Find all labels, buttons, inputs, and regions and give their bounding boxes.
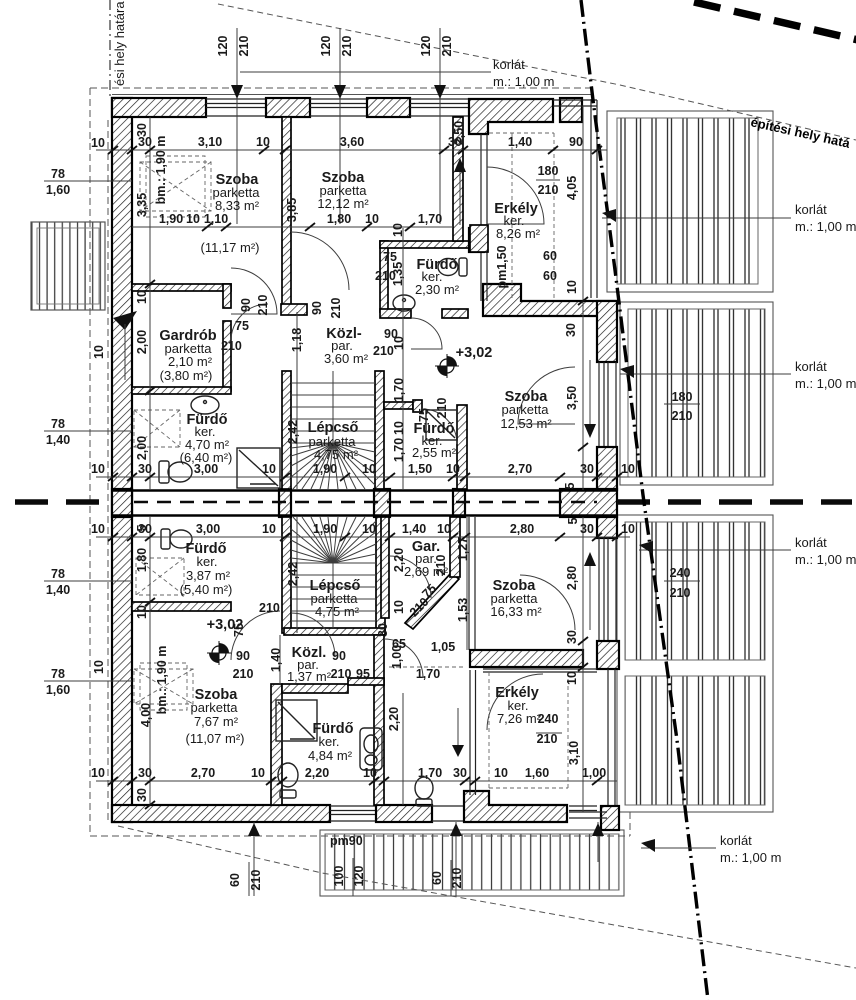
thin dashed diagonal top (epitesi hely hatara): [218, 4, 856, 140]
wall between Erkely and szoba 12,53: [483, 284, 617, 316]
svg-text:1,80: 1,80: [327, 212, 351, 226]
svg-text:12,12 m²: 12,12 m²: [317, 196, 369, 211]
svg-text:3,60: 3,60: [340, 135, 364, 149]
door szoba 12,12 from kozl: [291, 232, 349, 290]
svg-text:10: 10: [391, 223, 405, 237]
furdo 2,30: [415, 257, 460, 297]
svg-text:78: 78: [51, 567, 65, 581]
svg-text:7,26 m²: 7,26 m²: [497, 711, 542, 726]
right wall lower block top unit: [597, 447, 617, 490]
bottom-right corner block: [601, 806, 619, 830]
shower furdo 3,87 dashed: [136, 558, 184, 595]
svg-text:2,42: 2,42: [286, 420, 300, 444]
svg-text:10: 10: [135, 290, 149, 304]
dim row 4 y534: [96, 536, 630, 538]
svg-text:180: 180: [672, 390, 693, 404]
svg-text:10: 10: [251, 766, 265, 780]
svg-text:10: 10: [92, 345, 106, 359]
szoba 12,12: [317, 170, 369, 211]
szoba 12,12 right wall: [453, 117, 463, 241]
svg-text:210: 210: [256, 295, 270, 316]
dim row mid bottom unit y646: [356, 637, 455, 681]
svg-text:10: 10: [446, 462, 460, 476]
svg-text:30: 30: [135, 123, 149, 137]
svg-text:75: 75: [232, 623, 246, 637]
wall between szoba 8,33 and szoba 12,12: [282, 117, 291, 312]
svg-text:10: 10: [365, 212, 379, 226]
svg-text:m.: 1,00 m: m.: 1,00 m: [720, 850, 781, 865]
wall spine x375 top unit: [380, 241, 388, 312]
bottom door arrows: [248, 823, 260, 836]
svg-text:95: 95: [356, 667, 370, 681]
svg-text:12,53 m²: 12,53 m²: [500, 416, 552, 431]
svg-text:210: 210: [670, 586, 691, 600]
top wall piece 1: [112, 98, 206, 117]
wc bottom wall: [415, 777, 433, 806]
svg-text:210: 210: [434, 555, 448, 576]
diagonal dash-dot property line: [581, 0, 708, 1000]
wall left of furdo 4,84: [271, 684, 282, 805]
top window 2: [310, 99, 367, 116]
bottom window 1: [330, 806, 376, 821]
bottom railing of bottom Erkely: [569, 812, 607, 818]
svg-text:10: 10: [186, 212, 200, 226]
door gar: [389, 556, 431, 598]
erkely bottom top rail: [483, 669, 597, 672]
bottom window right: [569, 806, 597, 811]
svg-text:1,70: 1,70: [418, 766, 442, 780]
door szoba 12,53 entry: [518, 367, 575, 424]
svg-text:2,55 m²: 2,55 m²: [412, 445, 457, 460]
gardrob: [159, 328, 216, 383]
svg-text:1,40: 1,40: [402, 522, 426, 536]
shower furdo 2,55: [426, 410, 457, 440]
svg-text:3,10: 3,10: [198, 135, 222, 149]
svg-text:90: 90: [239, 298, 253, 312]
szoba 16,33 left wall: [469, 517, 475, 650]
svg-text:parketta: parketta: [191, 700, 239, 715]
svg-text:16,33 m²: 16,33 m²: [490, 604, 542, 619]
bottom erkely left wall: [470, 670, 476, 795]
svg-text:1,60: 1,60: [525, 766, 549, 780]
lepcso bottom: [310, 578, 361, 619]
svg-text:210: 210: [331, 667, 352, 681]
svg-text:10: 10: [91, 462, 105, 476]
svg-text:3,10: 3,10: [567, 741, 581, 765]
svg-text:5: 5: [563, 482, 577, 489]
svg-text:210: 210: [259, 601, 280, 615]
furdo 4,84: [308, 721, 354, 763]
left exterior wall: [112, 98, 132, 822]
svg-text:m.: 1,00 m: m.: 1,00 m: [795, 376, 856, 391]
door furdo 2,55: [422, 409, 457, 444]
svg-text:1,40: 1,40: [508, 135, 532, 149]
right window (szoba 12,53): [599, 362, 616, 447]
svg-text:75: 75: [235, 319, 249, 333]
svg-text:korlát: korlát: [795, 202, 827, 217]
svg-text:1,10: 1,10: [204, 212, 228, 226]
svg-text:2,30 m²: 2,30 m²: [415, 282, 460, 297]
svg-text:120: 120: [352, 866, 366, 887]
svg-text:3,60 m²: 3,60 m²: [324, 351, 369, 366]
svg-text:10: 10: [363, 766, 377, 780]
svg-text:5: 5: [566, 517, 580, 524]
svg-text:1,60: 1,60: [46, 183, 70, 197]
window axis arrows top: [231, 85, 243, 99]
svg-text:30: 30: [453, 766, 467, 780]
svg-text:+3,02: +3,02: [456, 345, 493, 361]
dim row 5 y777: [96, 780, 617, 782]
svg-text:30: 30: [580, 522, 594, 536]
stair bottom cap: [284, 628, 385, 635]
svg-text:90: 90: [332, 649, 346, 663]
svg-text:10: 10: [135, 605, 149, 619]
bottom door gap: [432, 806, 467, 821]
furdo 3,87 bottom wall: [132, 602, 231, 611]
wc furdo 3,87: [161, 529, 192, 549]
svg-text:2,80: 2,80: [565, 566, 579, 590]
top-right L wall of Erkely: [469, 99, 553, 134]
svg-text:210: 210: [233, 667, 254, 681]
svg-text:bm.: 1,90 m: bm.: 1,90 m: [154, 136, 168, 205]
svg-text:210: 210: [249, 870, 263, 891]
svg-text:korlát: korlát: [720, 833, 752, 848]
stair left wall top unit: [282, 371, 291, 489]
svg-text:1,90: 1,90: [159, 212, 183, 226]
erkely top: [494, 201, 540, 241]
svg-text:pm90: pm90: [330, 834, 363, 848]
svg-text:10: 10: [565, 280, 579, 294]
svg-text:(6,40 m²): (6,40 m²): [180, 450, 233, 465]
svg-text:(5,40 m²): (5,40 m²): [180, 582, 233, 597]
svg-text:10: 10: [621, 522, 635, 536]
svg-text:10: 10: [362, 522, 376, 536]
furdo 4,84 right wall: [374, 635, 384, 805]
svg-text:30: 30: [135, 788, 149, 802]
svg-text:1,70: 1,70: [416, 667, 440, 681]
wc furdo 4,70: [159, 461, 192, 483]
wc furdo 4,84: [278, 763, 298, 798]
top window 3: [410, 99, 469, 116]
szoba 7,67: [186, 687, 245, 746]
svg-text:240: 240: [538, 712, 559, 726]
balcony bottom-right: [617, 515, 773, 812]
svg-text:1,70: 1,70: [392, 378, 406, 402]
svg-text:120: 120: [419, 36, 433, 57]
top wall piece 3: [367, 98, 410, 117]
door szoba 16,33: [520, 575, 575, 630]
kozl bottom-right wall piece: [348, 678, 384, 685]
door furdo 4,84: [384, 639, 423, 678]
svg-text:60: 60: [543, 249, 557, 263]
svg-text:5: 5: [135, 524, 149, 531]
gar diagonal wall: [405, 573, 459, 629]
svg-text:30: 30: [580, 462, 594, 476]
wc furdo 2,30: [438, 258, 467, 276]
svg-text:30: 30: [138, 462, 152, 476]
svg-text:78: 78: [51, 667, 65, 681]
svg-text:1,90: 1,90: [313, 522, 337, 536]
door erkely top: [487, 167, 544, 224]
svg-text:3,85: 3,85: [285, 198, 299, 222]
door szoba 8,33: [231, 268, 277, 314]
bm dashed box szoba 8,33: [140, 156, 211, 217]
svg-text:(11,07 m²): (11,07 m²): [186, 731, 245, 746]
svg-text:78: 78: [51, 167, 65, 181]
svg-text:10: 10: [392, 600, 406, 614]
svg-text:m.: 1,00 m: m.: 1,00 m: [795, 219, 856, 234]
svg-text:2,20: 2,20: [305, 766, 329, 780]
bottom wall piece 2: [376, 805, 432, 822]
svg-text:210: 210: [340, 36, 354, 57]
svg-text:ési hely határa: ési hely határa: [112, 1, 127, 86]
svg-text:1,35: 1,35: [391, 262, 405, 286]
shower tray by party wall top: [237, 448, 280, 488]
svg-text:10: 10: [92, 660, 106, 674]
svg-text:10: 10: [91, 766, 105, 780]
svg-text:210: 210: [537, 732, 558, 746]
svg-text:180: 180: [538, 164, 559, 178]
right wall upper block (szoba 12,53): [597, 301, 617, 362]
erkely bottom: [495, 685, 541, 726]
svg-text:1,90: 1,90: [313, 462, 337, 476]
svg-text:1,60: 1,60: [46, 683, 70, 697]
door furdo 3,87 (bottom unit): [231, 611, 280, 660]
svg-text:90: 90: [236, 649, 250, 663]
door furdo 2,30: [411, 318, 442, 349]
level marker top unit: [435, 354, 459, 378]
top wall piece 2: [266, 98, 310, 117]
top window 1: [206, 99, 266, 116]
erkely left wall lines: [481, 134, 487, 301]
svg-text:10: 10: [262, 522, 276, 536]
svg-text:3,50: 3,50: [565, 386, 579, 410]
svg-text:2,80: 2,80: [510, 522, 534, 536]
svg-text:ker.: ker.: [319, 734, 340, 749]
svg-text:2,50: 2,50: [452, 121, 466, 145]
svg-text:78: 78: [51, 417, 65, 431]
stair right wall bottom unit: [376, 517, 385, 633]
svg-text:1,00: 1,00: [390, 645, 404, 669]
svg-text:120: 120: [319, 36, 333, 57]
svg-text:1,37 m²: 1,37 m²: [287, 669, 332, 684]
dim row 3 y473: [96, 476, 630, 478]
door erkely bottom: [487, 674, 543, 730]
gar: [404, 539, 449, 579]
szoba 16,33: [490, 578, 542, 619]
left small deck: [31, 222, 105, 310]
gardrob bottom wall: [132, 387, 231, 394]
door szoba 7,67: [291, 613, 335, 657]
furdo 4,70: [180, 412, 233, 465]
svg-text:(3,80 m²): (3,80 m²): [160, 368, 213, 383]
svg-text:60: 60: [228, 873, 242, 887]
svg-text:1,40: 1,40: [46, 433, 70, 447]
svg-text:210: 210: [450, 868, 464, 889]
svg-text:2,10 m²: 2,10 m²: [168, 354, 213, 369]
svg-text:korlát: korlát: [795, 535, 827, 550]
svg-text:10: 10: [437, 522, 451, 536]
svg-text:korlát: korlát: [795, 359, 827, 374]
gardrob top wall: [132, 284, 231, 291]
szoba 12,53: [500, 389, 552, 431]
svg-text:30: 30: [565, 630, 579, 644]
gardrob right wall: [223, 284, 231, 308]
kozl bottom: [287, 645, 332, 684]
svg-text:3,87 m²: 3,87 m²: [186, 568, 231, 583]
svg-text:1,53: 1,53: [456, 598, 470, 622]
korlat leader arrows: [602, 209, 616, 222]
svg-text:m.: 1,00 m: m.: 1,00 m: [795, 552, 856, 567]
furdo 2,30 right block: [469, 228, 484, 252]
right wall block at szoba 16,33 corner: [597, 641, 619, 669]
svg-text:8,33 m²: 8,33 m²: [215, 198, 260, 213]
svg-text:240: 240: [670, 566, 691, 580]
svg-text:2,00: 2,00: [135, 330, 149, 354]
bottom terrace: [320, 830, 624, 896]
svg-text:2,70: 2,70: [191, 766, 215, 780]
thin dashed diagonal bottom: [118, 826, 856, 968]
svg-text:210: 210: [373, 344, 394, 358]
balcony mid-right: [620, 302, 773, 485]
svg-text:10: 10: [621, 462, 635, 476]
center party dashed line: [15, 499, 112, 505]
stair right wall top unit: [375, 371, 384, 489]
furdo 4,84 top wall: [282, 684, 348, 693]
svg-text:4,84 m²: 4,84 m²: [308, 748, 353, 763]
party wall double line: [112, 489, 617, 517]
svg-text:1,00: 1,00: [582, 766, 606, 780]
furdo 2,55: [412, 421, 457, 460]
svg-text:1,40: 1,40: [46, 583, 70, 597]
furdo 3,87: [180, 541, 233, 597]
dim row 2 y224: [132, 226, 453, 228]
furdo 2,30 top wall: [380, 241, 469, 248]
svg-text:1,40: 1,40: [269, 648, 283, 672]
svg-text:30: 30: [376, 623, 390, 637]
svg-text:1,70: 1,70: [392, 438, 406, 462]
svg-text:10: 10: [256, 135, 270, 149]
svg-text:ker.: ker.: [197, 554, 218, 569]
svg-text:2,20: 2,20: [392, 548, 406, 572]
section arrows: [454, 158, 466, 172]
furdo 2,30 bottom wall: [380, 309, 411, 318]
door gardrob: [231, 304, 268, 341]
svg-text:2,42: 2,42: [286, 562, 300, 586]
svg-text:korlát: korlát: [493, 57, 525, 72]
svg-text:10: 10: [392, 421, 406, 435]
svg-text:120: 120: [216, 36, 230, 57]
szoba 16,33 bottom wall: [470, 650, 583, 667]
svg-text:4,75 m²: 4,75 m²: [315, 604, 360, 619]
svg-text:75: 75: [417, 408, 431, 422]
stair left wall bottom unit: [282, 517, 291, 633]
svg-text:1,70: 1,70: [418, 212, 442, 226]
svg-text:pm1,50: pm1,50: [495, 245, 509, 288]
svg-text:1,50: 1,50: [408, 462, 432, 476]
gar left wall = spine: [381, 517, 389, 618]
svg-text:2,00: 2,00: [135, 436, 149, 460]
svg-text:210: 210: [435, 398, 449, 419]
furdo 2,55 right wall: [457, 405, 467, 489]
svg-text:60: 60: [430, 871, 444, 885]
svg-text:210: 210: [221, 339, 242, 353]
svg-text:210: 210: [329, 298, 343, 319]
level marker bottom unit: [207, 641, 231, 665]
svg-text:4,75 m²: 4,75 m²: [314, 447, 359, 462]
svg-text:210: 210: [538, 183, 559, 197]
svg-text:210: 210: [237, 36, 251, 57]
erkely left wall mid block: [470, 225, 488, 252]
bm dashed box szoba 7,67: [134, 663, 193, 710]
top railing of Erkely: [553, 100, 597, 298]
right wall bottom unit upper block: [597, 517, 617, 538]
bottom wall piece 3 (L): [464, 791, 567, 822]
svg-text:3,00: 3,00: [196, 522, 220, 536]
svg-text:30: 30: [138, 766, 152, 780]
svg-text:10: 10: [362, 462, 376, 476]
thick dashed boundary top right: [694, 2, 856, 40]
bath furdo 4,84: [360, 728, 382, 770]
railing right of bottom Erkely: [608, 669, 615, 812]
svg-text:60: 60: [543, 269, 557, 283]
svg-text:m.: 1,00 m: m.: 1,00 m: [493, 74, 554, 89]
svg-text:10: 10: [262, 462, 276, 476]
sink furdo 2,30: [393, 295, 415, 311]
svg-text:210: 210: [440, 36, 454, 57]
shower furdo 4,70 dashed: [134, 410, 180, 447]
svg-text:90: 90: [310, 301, 324, 315]
svg-text:1,05: 1,05: [431, 640, 455, 654]
bottom wall piece 1: [112, 805, 330, 822]
svg-text:30: 30: [564, 323, 578, 337]
svg-text:parketta: parketta: [502, 402, 550, 417]
szoba 8,33: [213, 172, 261, 213]
gar right wall: [450, 517, 460, 577]
svg-text:7,67 m²: 7,67 m²: [194, 714, 239, 729]
svg-text:1,18: 1,18: [290, 328, 304, 352]
svg-text:2,20: 2,20: [387, 707, 401, 731]
svg-text:10: 10: [565, 671, 579, 685]
lepcso top: [308, 420, 359, 462]
right window bottom unit: [599, 538, 616, 641]
svg-text:1,80: 1,80: [135, 548, 149, 572]
dim row 1 y150: [96, 149, 607, 151]
svg-text:4,00: 4,00: [139, 703, 153, 727]
left 78 labels: [46, 167, 70, 697]
svg-text:bm.: 1,90 m: bm.: 1,90 m: [155, 646, 169, 715]
svg-text:2,70: 2,70: [508, 462, 532, 476]
shower furdo 4,84: [276, 700, 317, 741]
balcony top-right: [607, 111, 773, 292]
svg-text:210: 210: [672, 409, 693, 423]
sink furdo 4,70: [191, 396, 219, 414]
furdo 2,55 top walls: [384, 402, 413, 409]
kozl top: [324, 326, 369, 366]
stairs bottom unit: [291, 517, 376, 628]
svg-text:3,35: 3,35: [135, 193, 149, 217]
svg-text:1,27: 1,27: [456, 537, 470, 561]
svg-text:90: 90: [569, 135, 583, 149]
svg-text:8,26 m²: 8,26 m²: [496, 226, 541, 241]
svg-text:100: 100: [332, 866, 346, 887]
svg-text:10: 10: [392, 336, 406, 350]
korlat labels right: [720, 202, 856, 865]
svg-text:10: 10: [494, 766, 508, 780]
svg-text:(11,17 m²): (11,17 m²): [201, 240, 260, 255]
svg-text:10: 10: [91, 136, 105, 150]
svg-text:4,05: 4,05: [565, 176, 579, 200]
